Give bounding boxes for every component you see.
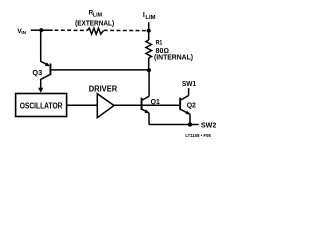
wire SW2 stub: [191, 124, 199, 126]
wire I_LIM pin stub: [148, 22, 150, 29]
wire oscillator output to driver: [67, 104, 98, 106]
transistor Q3 (PNP): [41, 61, 52, 79]
resistor R1 (internal) zigzag: [146, 40, 152, 58]
svg-text:Q2: Q2: [187, 102, 196, 110]
wire dashed external link (left of R_LIM): [55, 29, 88, 31]
wire Q1 base to Q2 base: [143, 104, 180, 106]
node D: SW2 junction dot: [188, 122, 192, 126]
transistor Q2 (NPN): [179, 96, 190, 115]
wire Q2 collector to SW1: [188, 88, 190, 95]
label I_LIM: [143, 12, 156, 21]
wire Q3 collector to oscillator with arrow: [38, 79, 43, 93]
svg-text:LIM: LIM: [145, 15, 155, 21]
label R1 80ohm (INTERNAL): [154, 40, 194, 62]
wire V_IN lead: [31, 29, 43, 31]
wire driver output to Q1 base: [114, 104, 141, 106]
node A: V_IN junction dot: [39, 28, 43, 32]
svg-text:IN: IN: [21, 30, 26, 36]
wire common emitter rail to SW2 node: [149, 124, 189, 126]
wire solid stub after node A: [43, 29, 53, 31]
wire Q3 base to node C (long horizontal): [51, 69, 147, 71]
wire dashed external link (right of R_LIM): [104, 29, 147, 31]
svg-text:Q3: Q3: [32, 69, 42, 77]
svg-text:SW2: SW2: [201, 122, 216, 130]
svg-text:LT1108 • F08: LT1108 • F08: [185, 133, 211, 138]
wire V_IN rail down to Q3 emitter: [40, 30, 42, 62]
wire Q1 collector riser to node C: [148, 71, 150, 96]
svg-text:OSCILLATOR: OSCILLATOR: [20, 100, 63, 110]
wire Q2 emitter drop to node D: [189, 114, 191, 123]
wire node B to R1 top: [148, 31, 150, 40]
wire R1 bottom to node C: [148, 58, 150, 70]
transistor Q1 (NPN): [141, 96, 150, 113]
node C: R1 bottom junction dot: [147, 68, 151, 72]
node B: I_LIM pin junction dot: [147, 29, 151, 33]
label V_IN: [17, 28, 26, 36]
oscillator block: [16, 94, 67, 117]
label R_LIM (EXTERNAL): [75, 9, 114, 27]
svg-text:DRIVER: DRIVER: [89, 84, 118, 93]
svg-text:Q1: Q1: [151, 98, 160, 106]
svg-text:(INTERNAL): (INTERNAL): [154, 52, 194, 61]
resistor R_LIM (external) zigzag: [87, 28, 104, 34]
driver amplifier triangle: [97, 94, 114, 118]
wire Q1 emitter drop: [148, 113, 150, 125]
svg-text:(EXTERNAL): (EXTERNAL): [75, 18, 114, 27]
svg-text:R1: R1: [156, 40, 163, 47]
svg-text:SW1: SW1: [182, 80, 196, 88]
